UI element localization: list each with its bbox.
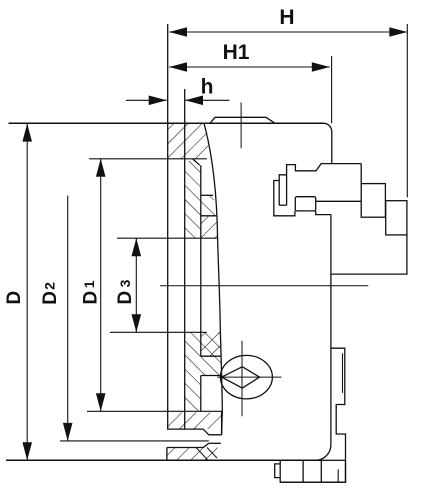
right stepped strip [280,348,345,482]
jaw slot inner [279,175,286,205]
hatch band full width below slot [201,356,222,375]
hatch band top flange [168,123,210,159]
body right edge below jaw with bottom rounded corner [315,215,331,461]
hatch band back ring [167,413,222,430]
hatch band below bore left [185,332,201,411]
arrow h left pointing right [149,96,167,106]
arrow h right pointing left [185,96,203,106]
D1 top extension line [89,158,207,160]
section boundary tapered curve [204,123,222,435]
bolt circle ellipse [220,355,272,399]
axis centerline [160,285,368,287]
slot bottom edge line B2 [201,355,221,357]
chamfer at recess top [193,159,200,165]
jaw outer block [386,201,407,235]
extension line x184.7 [184,89,186,429]
screw centerline top [240,102,242,148]
square socket diamond [222,367,260,388]
D3 bottom extension line doubles as bore bottom edge [110,331,207,333]
svg-text:D: D [80,291,101,305]
circle horizontal centerline [217,376,281,378]
jaw mid block [361,184,385,218]
circle vertical centerline [241,341,243,417]
dimension h tails [126,99,167,101]
jaw lower boundary box [331,235,407,274]
arrow D3 bottom [132,314,142,332]
D1 bottom extension line [87,410,222,412]
arrow D2 bottom [63,423,73,441]
top extension line D merged with body top edge [9,122,324,124]
body top right rounded corner [324,123,332,163]
dimension line D3 vertical [135,238,137,332]
spigot left tab [275,464,281,478]
bolt hole top edge [201,375,222,377]
arrow H1 right [312,62,330,72]
svg-text:H1: H1 [223,41,250,64]
jaw lower connector [316,211,331,215]
arrow H right [389,27,407,37]
jaw top right corner vertical [360,164,362,184]
inner vertical line x200.8 [200,165,202,356]
spigot divider 2 [320,460,322,482]
arrow D top [22,124,32,142]
extension line right x407 [406,24,408,197]
svg-text:2: 2 [42,282,58,290]
arrow D1 top [96,159,106,177]
jaw top profile [287,164,362,206]
dimension line H [169,31,407,33]
slot top edge line B [201,215,217,217]
hatch band upper middle narrow [185,161,201,238]
jaw outer left [274,181,295,216]
dimension line D vertical [26,124,28,461]
dimension line H1 [169,66,330,68]
extension line H1 right x331.6 [331,56,333,123]
dimension line D2 vertical [67,196,69,441]
svg-text:D: D [4,291,25,305]
fwd hatch below slot edge [201,216,218,238]
arrow H1 left [169,62,187,72]
jaw underside [316,200,362,202]
D3 top extension line doubles as bore top edge [117,237,218,239]
bottom spigot block [280,460,345,482]
bottom extension line D merged with body bottom edge [6,459,319,461]
key trapezoid on top [210,117,275,123]
D2 bottom extension line [60,440,209,442]
arrow D bottom [22,442,32,460]
svg-text:D: D [40,291,61,305]
arrow D1 bottom [96,393,106,411]
svg-text:3: 3 [117,279,133,287]
svg-text:D: D [115,291,136,305]
arrow D3 top [132,238,142,256]
hatch band above slot edge [201,195,216,216]
extension line left x168 [167,24,169,429]
spigot divider 1 [302,460,304,482]
svg-text:h: h [201,76,214,99]
cross hatch V groove below bore [201,332,221,356]
arrow H left [169,27,187,37]
strip bottom inner step [337,469,339,482]
recess bottom edge line A [201,194,213,196]
strip inner line [342,353,344,393]
dimension line D1 vertical [100,159,102,411]
bottom left recess groove [167,429,222,435]
svg-text:H: H [279,6,294,29]
hatch band bottom rim [167,448,219,461]
svg-text:1: 1 [81,280,97,288]
jaw small step block [295,197,315,211]
